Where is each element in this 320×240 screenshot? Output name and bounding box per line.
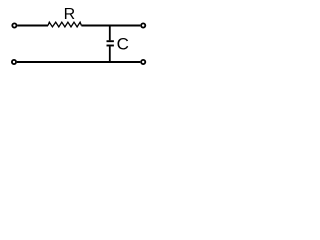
svg-text:C: C [117, 35, 129, 54]
terminal top-left [12, 23, 16, 27]
wire capacitor lower stem [109, 46, 111, 63]
wire top-left segment [17, 25, 48, 27]
terminal bottom-right [141, 60, 145, 64]
terminal top-right [141, 23, 145, 27]
terminal bottom-left [12, 60, 16, 64]
wire capacitor upper stem [109, 25, 111, 41]
capacitor C bottom plate [107, 45, 114, 47]
wire top-right segment [81, 25, 140, 27]
svg-text:R: R [64, 6, 76, 23]
background [0, 0, 157, 76]
capacitor C top plate [107, 40, 114, 42]
wire bottom segment [17, 61, 141, 63]
resistor R [48, 22, 81, 27]
